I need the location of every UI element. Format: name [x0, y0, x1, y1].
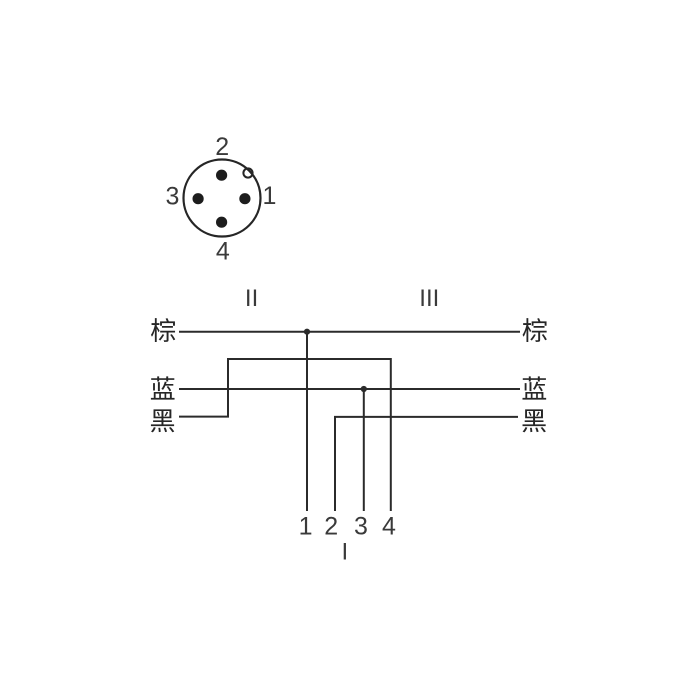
pin 4 (bottom contact) — [216, 217, 227, 228]
wire pin1 vertical drop — [306, 332, 308, 511]
label hei (black) right — [523, 409, 546, 432]
svg-text:2: 2 — [215, 133, 229, 161]
label zong (brown) right — [523, 318, 547, 342]
label zong (brown) left — [151, 318, 175, 342]
wire blue bus — [179, 388, 520, 390]
svg-text:III: III — [419, 285, 439, 312]
label hei (black) left — [151, 409, 174, 432]
connector J1 (M12 4-pin male, face view) — [166, 133, 277, 265]
label lan (blue) right — [522, 376, 546, 399]
svg-text:II: II — [245, 285, 258, 312]
svg-text:1: 1 — [263, 182, 277, 210]
pin 3 (left contact) — [193, 193, 204, 204]
wire brown bus (left label to right label) — [179, 331, 520, 333]
connector keyway notch — [243, 168, 252, 177]
svg-text:3: 3 — [354, 513, 368, 541]
svg-text:4: 4 — [216, 237, 230, 265]
svg-text:4: 4 — [382, 513, 396, 541]
wire black left segment — [179, 359, 391, 511]
label lan (blue) left — [151, 376, 175, 399]
connector body circle — [184, 160, 261, 237]
pin 2 (top contact) — [216, 170, 227, 181]
wire pin3 vertical drop — [363, 389, 365, 511]
svg-text:I: I — [341, 539, 348, 566]
pin 1 (right contact) — [239, 193, 250, 204]
svg-text:2: 2 — [324, 513, 338, 541]
junction node: pin3 to blue — [361, 386, 367, 392]
wire black right segment with pin2 drop — [335, 417, 518, 511]
junction node: pin1 to brown — [304, 329, 310, 335]
svg-text:3: 3 — [166, 183, 180, 211]
svg-text:1: 1 — [299, 513, 313, 541]
